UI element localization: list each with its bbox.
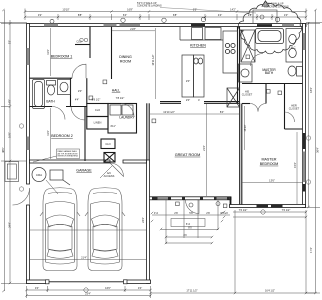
- svg-text:8'4": 8'4": [220, 110, 224, 114]
- svg-text:BEDROOM: BEDROOM: [260, 162, 279, 166]
- cooktop burners: [225, 43, 235, 53]
- svg-text:24'4": 24'4": [8, 222, 12, 228]
- svg-text:ACCESS: ACCESS: [104, 174, 115, 178]
- svg-text:36'4": 36'4": [316, 147, 320, 153]
- svg-text:3'4": 3'4": [138, 286, 142, 290]
- laundry door: [121, 104, 134, 117]
- svg-text:14'8": 14'8": [8, 99, 12, 105]
- bedroom1 right wall: [111, 27, 113, 80]
- ac pad box: [50, 170, 70, 185]
- svg-text:24'4": 24'4": [141, 217, 145, 223]
- exterior wall right: [303, 24, 306, 208]
- laundry room: [108, 104, 137, 134]
- svg-text:LAUNDRY: LAUNDRY: [119, 115, 135, 119]
- svg-text:BATH: BATH: [46, 100, 55, 104]
- concrete landing: [253, 10, 277, 24]
- svg-text:15'4": 15'4": [293, 162, 297, 168]
- garage right wall: [147, 160, 150, 284]
- dims below master wall: [233, 212, 306, 217]
- svg-text:18'4": 18'4": [309, 87, 313, 93]
- dimension lines top: [25, 9, 306, 21]
- hall west wall: [86, 78, 88, 103]
- svg-text:KITCHEN: KITCHEN: [190, 43, 206, 47]
- svg-text:11'4": 11'4": [46, 49, 50, 55]
- interior walls: [30, 27, 242, 205]
- windows right wall: [303, 33, 306, 192]
- svg-text:4'4": 4'4": [75, 98, 79, 102]
- hall bottom wall / kitchen divider: [160, 101, 181, 103]
- master bedroom west wall: [239, 103, 241, 204]
- master bath double vanity right: [286, 29, 303, 63]
- bedroom2 right wall: [84, 107, 86, 162]
- svg-text:BATH: BATH: [265, 71, 274, 75]
- svg-text:M.C.: M.C.: [291, 46, 297, 50]
- revision cloud: [238, 4, 301, 54]
- svg-text:2'0": 2'0": [186, 79, 190, 83]
- attic access circle: [32, 168, 46, 182]
- svg-text:6'8": 6'8": [173, 13, 177, 17]
- svg-text:BEDROOM 2: BEDROOM 2: [51, 134, 73, 138]
- hall closet column: [87, 103, 108, 105]
- bath toilet: [47, 81, 56, 96]
- svg-text:21'4": 21'4": [81, 255, 87, 259]
- garage top wall: [30, 160, 147, 163]
- svg-text:23'4": 23'4": [85, 292, 91, 296]
- master bath door: [251, 54, 264, 67]
- svg-text:7'6 1/2": 7'6 1/2": [282, 208, 291, 212]
- svg-text:CLOSET: CLOSET: [242, 93, 253, 97]
- svg-text:2'0": 2'0": [78, 89, 82, 93]
- svg-text:10'10": 10'10": [62, 8, 69, 12]
- svg-text:13'6": 13'6": [269, 179, 275, 183]
- svg-text:7'8 1/2": 7'8 1/2": [116, 96, 125, 100]
- svg-text:2'8: 2'8: [206, 211, 210, 215]
- patio door: [186, 200, 200, 214]
- great room dim line vertical: [30, 28, 302, 260]
- svg-text:DINING: DINING: [119, 55, 132, 59]
- svg-text:3'2": 3'2": [8, 40, 12, 44]
- exterior wall top: [27, 24, 306, 27]
- bath fixtures: tub: [33, 80, 45, 109]
- svg-text:17'4": 17'4": [309, 247, 313, 253]
- svg-text:2'8: 2'8: [174, 211, 178, 215]
- svg-text:CONCRETE LANDING: CONCRETE LANDING: [264, 5, 289, 8]
- note box rear garage wall: [33, 149, 80, 162]
- bedroom2 door: [71, 107, 85, 121]
- hall / great room divider wall: [146, 103, 148, 160]
- windows top wall: [44, 24, 294, 27]
- svg-text:CLO: CLO: [95, 108, 100, 112]
- svg-text:1'0": 1'0": [284, 13, 288, 17]
- garage bottom wall: [27, 280, 151, 284]
- svg-text:GREAT ROOM: GREAT ROOM: [175, 153, 201, 157]
- svg-text:2'0": 2'0": [186, 98, 190, 102]
- window tag circles top: [50, 17, 280, 23]
- svg-text:16'10": 16'10": [243, 124, 247, 131]
- svg-text:17'11 1/2": 17'11 1/2": [186, 289, 197, 293]
- bath bottom / bedroom2 top wall: [30, 106, 53, 108]
- car 2: [85, 188, 125, 271]
- svg-text:3'4": 3'4": [35, 286, 39, 290]
- svg-text:HALL: HALL: [112, 88, 121, 92]
- master bath corner sink vanity: [239, 64, 253, 82]
- svg-text:21'4": 21'4": [202, 145, 206, 151]
- dimension lines right: [306, 10, 321, 293]
- svg-text:6'-0: 6'-0: [186, 222, 191, 226]
- front entry door: [13, 188, 30, 205]
- dimension lines bottom garage: [27, 286, 151, 298]
- svg-text:13'10 1/2": 13'10 1/2": [163, 110, 175, 114]
- bedroom1 door: [72, 64, 86, 78]
- windows great room bottom wall: [157, 197, 228, 200]
- svg-text:11'4": 11'4": [46, 130, 50, 136]
- svg-text:7'6 1/2": 7'6 1/2": [239, 208, 248, 212]
- master suite closet walls: [242, 84, 303, 130]
- bedroom1 bottom wall: [30, 77, 73, 79]
- svg-text:CLOSET: CLOSET: [289, 107, 300, 111]
- master bath toilet: [288, 66, 303, 76]
- svg-text:10'6": 10'6": [8, 132, 12, 138]
- dimension line bottom patio: [151, 210, 316, 293]
- master double doors arcs: [250, 104, 295, 123]
- svg-text:16'0": 16'0": [105, 286, 111, 290]
- bath right wall: [70, 78, 72, 106]
- porch stoop left: [5, 162, 19, 182]
- svg-text:3'2": 3'2": [38, 13, 42, 17]
- svg-text:14'2": 14'2": [230, 8, 236, 12]
- bedroom1 closet wall: [89, 27, 91, 59]
- dims below great room wall: [152, 200, 230, 244]
- doors (arcs): [13, 64, 200, 213]
- svg-text:16'8": 16'8": [127, 8, 133, 12]
- svg-text:INTERIOR SHEATHING: INTERIOR SHEATHING: [58, 155, 79, 158]
- svg-text:8'0: 8'0: [188, 226, 192, 230]
- windows left wall: [27, 48, 30, 150]
- mech closet: [227, 88, 240, 107]
- svg-text:48'0": 48'0": [1, 147, 5, 153]
- svg-text:4'0: 4'0: [183, 233, 187, 237]
- svg-text:CRA: CRA: [36, 173, 42, 177]
- window kitchen dark: [191, 24, 205, 27]
- svg-text:GARAGE: GARAGE: [76, 169, 92, 173]
- master bath shower: [241, 30, 255, 62]
- bath door: [52, 107, 65, 120]
- bath vanity sink: [58, 80, 71, 95]
- room labels: [46, 40, 299, 179]
- kitchen island: [182, 55, 204, 97]
- kitchen right wall: [237, 27, 239, 104]
- svg-text:CLO: CLO: [105, 142, 110, 146]
- great room bottom wall: [149, 197, 231, 205]
- dimension lines left: [1, 10, 27, 291]
- svg-text:3'-0: 3'-0: [154, 211, 159, 215]
- svg-text:2'8": 2'8": [248, 13, 252, 17]
- tags below great room wall: [189, 203, 193, 207]
- svg-text:21'8": 21'8": [130, 27, 136, 31]
- revision triangle: [262, 1, 269, 6]
- tag square master bath: [246, 55, 250, 59]
- svg-text:BEDROOM 1: BEDROOM 1: [51, 55, 73, 59]
- kitchen top counter + fridge: [180, 27, 238, 74]
- porch door sill dark: [257, 24, 272, 27]
- svg-text:16'11 1/2": 16'11 1/2": [151, 54, 155, 65]
- svg-text:4'11": 4'11": [110, 124, 116, 128]
- svg-text:5'8: 5'8: [189, 211, 193, 215]
- svg-text:ROOM: ROOM: [120, 60, 131, 64]
- windows master bottom wall: [257, 205, 283, 208]
- svg-text:2'2": 2'2": [193, 8, 197, 12]
- kitchen/greatroom divider right part: [204, 101, 240, 103]
- exterior wall left: [27, 24, 30, 284]
- car 1: [40, 188, 80, 271]
- garage entry door: [110, 163, 124, 177]
- svg-text:6'4": 6'4": [123, 13, 127, 17]
- svg-text:LINEN: LINEN: [94, 121, 102, 125]
- master bedroom bottom wall: [230, 205, 306, 208]
- svg-text:4'4": 4'4": [218, 13, 222, 17]
- svg-text:CONCRETE LANDING: CONCRETE LANDING: [137, 5, 162, 8]
- svg-text:16'4 1/2": 16'4 1/2": [265, 289, 275, 293]
- svg-text:8'8": 8'8": [78, 13, 82, 17]
- master bath: tub: [256, 29, 284, 44]
